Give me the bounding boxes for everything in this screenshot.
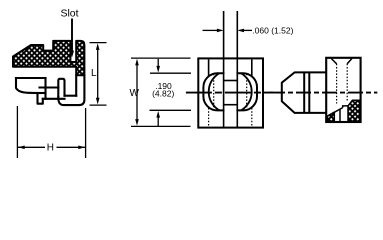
svg-text:L: L	[91, 68, 97, 79]
svg-text:(4.82): (4.82)	[152, 89, 174, 99]
svg-text:.060 (1.52): .060 (1.52)	[252, 26, 293, 36]
svg-text:W: W	[130, 88, 140, 99]
svg-text:H: H	[47, 143, 54, 154]
svg-text:Slot: Slot	[60, 8, 78, 20]
